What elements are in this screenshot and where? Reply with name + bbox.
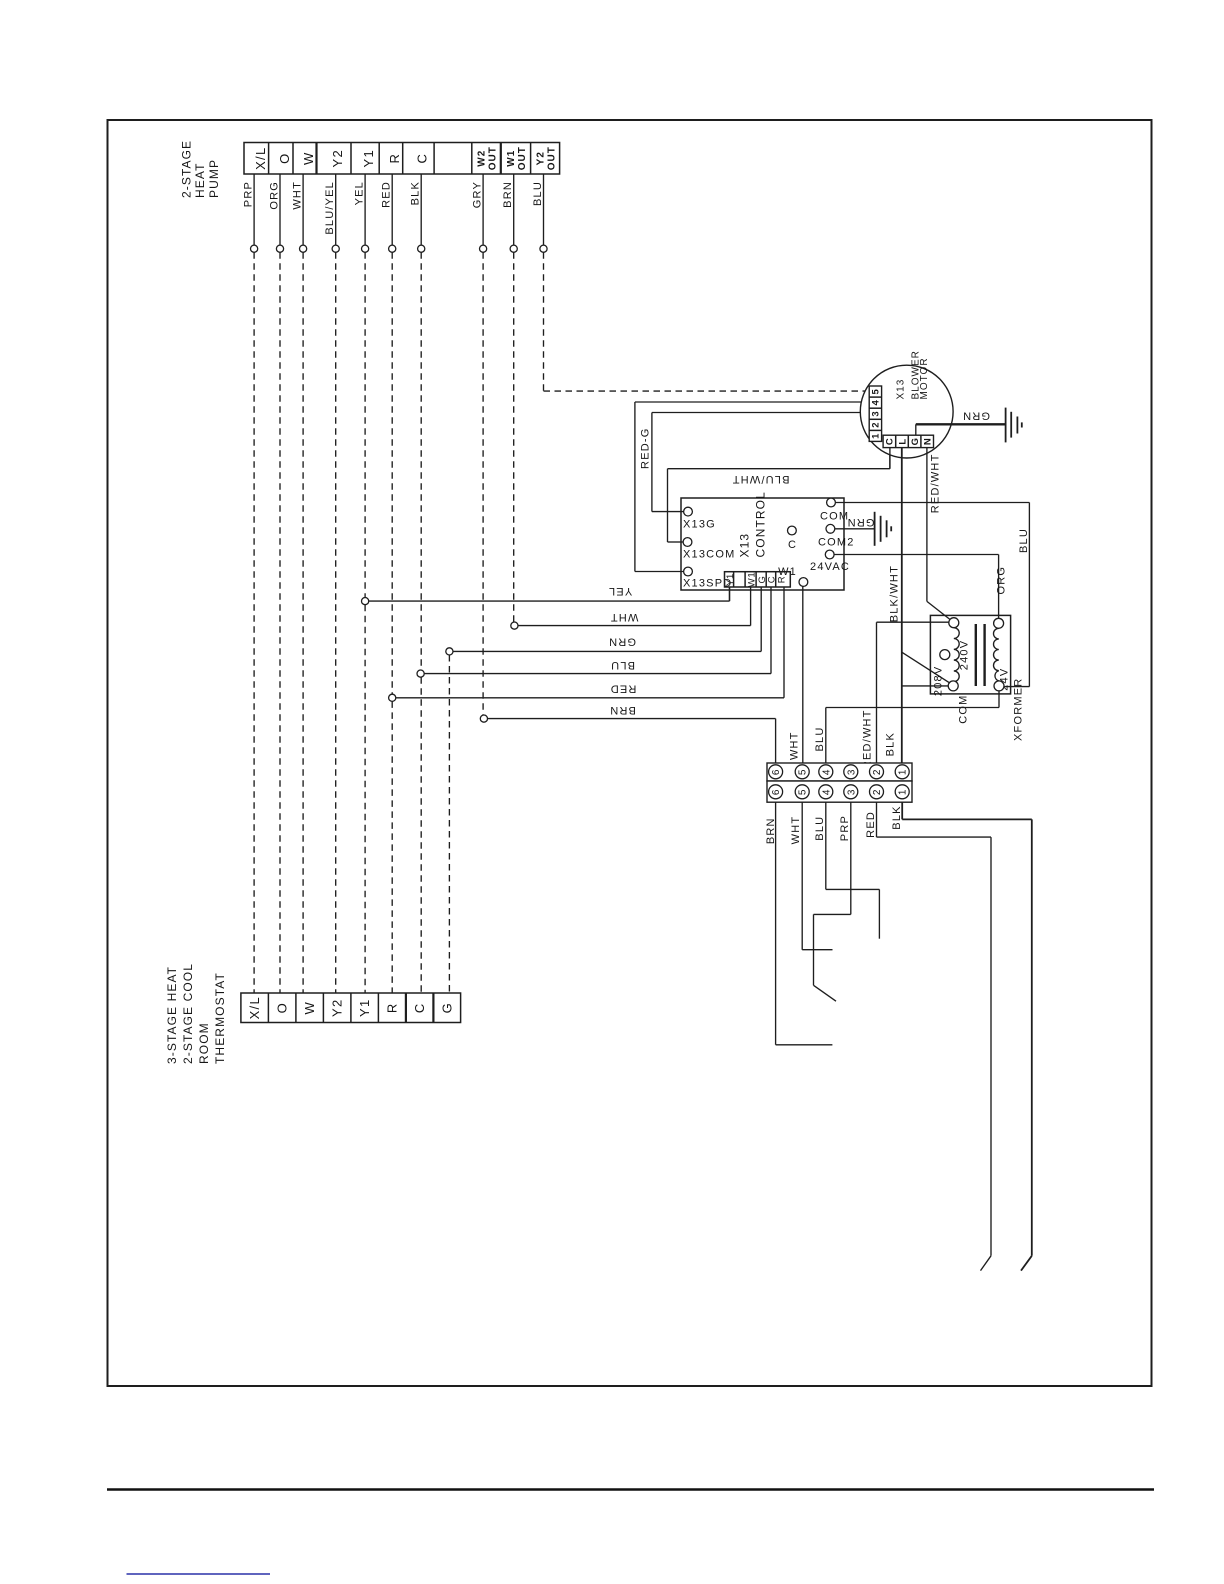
svg-text:COM: COM (958, 695, 970, 724)
wire WHT block5 lower to SEQ1 coil (790, 802, 833, 950)
pin C (788, 526, 797, 535)
svg-text:2-STAGE COOL: 2-STAGE COOL (181, 963, 195, 1064)
svg-text:4: 4 (821, 789, 832, 796)
svg-text:5: 5 (798, 769, 809, 776)
terminal block TB lower row (767, 781, 912, 802)
pin X13SPD (684, 567, 693, 576)
wire RED block2 lower to L2 lug (865, 802, 991, 1270)
svg-text:3: 3 (846, 789, 857, 796)
svg-text:2: 2 (872, 769, 883, 776)
X13 control board U1 (681, 491, 844, 590)
svg-text:OUT: OUT (487, 146, 498, 170)
svg-text:PRP: PRP (839, 815, 851, 841)
svg-text:OUT: OUT (546, 146, 557, 170)
svg-text:BRN: BRN (609, 704, 636, 716)
wire GRN control COM2 to ground (835, 516, 875, 529)
svg-text:3: 3 (846, 769, 857, 776)
svg-text:O: O (274, 1002, 289, 1013)
svg-text:2: 2 (872, 789, 883, 796)
svg-text:Y1: Y1 (357, 998, 372, 1017)
wire GRY column W2 OUT (472, 174, 487, 715)
motor terminal row C L G N (883, 435, 933, 447)
wire PRP column X/L (243, 174, 258, 993)
wire ORG control 24VAC to 24V secondary top (834, 555, 1007, 619)
svg-text:X/L: X/L (253, 146, 268, 169)
wire BLU control COM to 24V secondary (835, 503, 1030, 687)
wire BLU/WHT X13COM to motor C (668, 448, 890, 542)
wire ORG column O (268, 174, 283, 993)
svg-text:W2: W2 (476, 150, 487, 167)
svg-text:XFORMER: XFORMER (1013, 678, 1025, 741)
svg-text:G: G (439, 1002, 454, 1013)
pin 24VAC (825, 550, 834, 559)
svg-text:BLU: BLU (610, 659, 635, 671)
bottom rule (107, 1488, 1154, 1491)
svg-text:C: C (412, 1002, 427, 1013)
svg-text:ROOM: ROOM (197, 1022, 211, 1064)
thermostat terminal strip (241, 993, 461, 1023)
pin 24V top (994, 618, 1004, 628)
svg-text:BRN: BRN (502, 181, 514, 208)
svg-text:ORG: ORG (996, 566, 1008, 595)
wire BLU block4 lower to SEQ1 coil right (814, 802, 879, 939)
svg-text:2: 2 (871, 422, 882, 428)
svg-text:COM2: COM2 (818, 537, 855, 549)
motor speed tap strip 1-5 (869, 386, 882, 441)
svg-text:RED: RED (610, 683, 637, 695)
svg-text:WHT: WHT (790, 816, 802, 845)
wire WHT column W (292, 174, 307, 993)
svg-text:N: N (923, 438, 934, 445)
pin COM2 (826, 524, 835, 533)
svg-text:W: W (302, 1001, 317, 1015)
pin X13COM (683, 538, 692, 547)
svg-text:GRY: GRY (472, 181, 484, 208)
svg-text:Y2: Y2 (535, 151, 546, 165)
svg-text:BLU: BLU (814, 816, 826, 841)
svg-text:MOTOR: MOTOR (919, 357, 930, 399)
svg-text:BLU: BLU (532, 181, 544, 206)
svg-text:O: O (277, 152, 292, 163)
svg-text:240V: 240V (959, 640, 971, 671)
svg-text:Y2: Y2 (330, 149, 345, 168)
blue footer link line (127, 1573, 271, 1575)
svg-text:BLK/WHT: BLK/WHT (889, 565, 901, 622)
svg-text:G: G (910, 437, 921, 445)
svg-text:PUMP: PUMP (207, 159, 221, 198)
wire BLK/WHT motor L down to block 1 (885, 448, 902, 763)
svg-text:C: C (788, 539, 797, 551)
transformer core (975, 624, 977, 686)
wire 24V bottom to block 4 (814, 691, 999, 763)
wire X13G to motor tap 3 (652, 413, 869, 512)
svg-text:W1: W1 (746, 572, 757, 587)
svg-text:3-STAGE HEAT: 3-STAGE HEAT (165, 966, 179, 1064)
wire W1 pin to block 5 (789, 586, 803, 763)
svg-text:X/L: X/L (247, 996, 262, 1019)
svg-text:X13COM: X13COM (683, 549, 735, 561)
pin X13G (684, 507, 693, 516)
wire BLK column C (410, 174, 425, 993)
svg-text:W1: W1 (506, 150, 517, 167)
svg-text:BRN: BRN (765, 817, 777, 844)
wire BLU C-to-control (417, 587, 771, 677)
wire BLK block1 lower to L1 lug (891, 802, 1032, 1270)
secondary winding (994, 628, 999, 681)
X13 blower motor M1 (860, 350, 953, 458)
svg-text:GRN: GRN (846, 516, 874, 528)
pin COM (827, 498, 836, 507)
wire YEL-stub control Y1 terminal (729, 587, 731, 601)
svg-text:WHT: WHT (789, 731, 801, 760)
svg-text:HEAT: HEAT (193, 162, 207, 198)
transformer T1 XFORMER (930, 615, 1024, 741)
wire RED/WHT block 2 to XFMR 240V (862, 622, 949, 769)
svg-text:GRN: GRN (962, 409, 990, 421)
wire BRN block6 lower to SEQ2 coil (765, 802, 832, 1045)
svg-text:RED-G: RED-G (640, 428, 652, 469)
svg-text:RED/WHT: RED/WHT (862, 709, 874, 769)
wire WHT W1OUT-to-control (511, 587, 751, 629)
svg-text:YEL: YEL (354, 181, 366, 205)
svg-text:BLU/WHT: BLU/WHT (732, 473, 790, 485)
svg-text:4: 4 (821, 769, 832, 776)
svg-text:RED/WHT: RED/WHT (930, 454, 942, 514)
wire RED column R (381, 174, 396, 993)
svg-text:4: 4 (871, 400, 882, 406)
ground symbol at COM2 (875, 512, 892, 546)
svg-text:BLK: BLK (891, 805, 903, 829)
TB upper terminals 6..1 (769, 765, 910, 779)
svg-text:W: W (301, 151, 316, 165)
wire motor C stub to BLU/WHT (889, 448, 891, 469)
wire BLK branch to XFMR COM (902, 685, 948, 687)
svg-text:WHT: WHT (610, 611, 639, 623)
svg-text:R: R (387, 153, 402, 164)
terminal block TB upper row (767, 763, 912, 781)
pin 240V (949, 618, 959, 628)
svg-text:24VAC: 24VAC (810, 561, 850, 573)
pin 208V tap (940, 650, 950, 660)
wire column G (thermostat only) (448, 655, 450, 993)
TB lower terminals 6..1 (769, 785, 910, 799)
svg-text:1: 1 (898, 789, 909, 796)
wire YEL column Y1 (354, 174, 369, 993)
control bottom terminal row Y1/W1/G/C/R (725, 572, 791, 588)
svg-text:2-STAGE: 2-STAGE (180, 140, 194, 198)
svg-text:6: 6 (771, 769, 782, 776)
svg-text:WHT: WHT (292, 181, 304, 210)
svg-text:X13: X13 (896, 379, 907, 400)
svg-text:THERMOSTAT: THERMOSTAT (213, 972, 227, 1064)
svg-text:Y1: Y1 (725, 573, 736, 586)
svg-text:6: 6 (771, 789, 782, 796)
svg-text:BLK: BLK (885, 732, 897, 756)
svg-text:RED: RED (865, 811, 877, 838)
svg-text:BLU: BLU (1018, 528, 1030, 553)
pin 24V bottom (994, 681, 1004, 691)
svg-text:208V: 208V (933, 666, 945, 697)
svg-text:C: C (885, 438, 896, 445)
wire GRN motor G to ground (916, 409, 1006, 435)
wire GRN G-to-control (446, 587, 761, 655)
svg-text:R: R (384, 1002, 399, 1013)
svg-text:OUT: OUT (517, 146, 528, 170)
pin COM (948, 681, 958, 691)
wire BLK/WHT diagonal branch to XFMR COM (902, 652, 949, 682)
svg-text:R: R (776, 576, 787, 583)
svg-text:ORG: ORG (268, 181, 280, 210)
svg-text:L: L (897, 438, 908, 444)
svg-text:5: 5 (798, 789, 809, 796)
wire RED/WHT motor N to XFMR 240V (927, 448, 950, 620)
svg-text:YEL: YEL (608, 585, 632, 597)
border frame (108, 120, 1152, 1386)
svg-text:RED: RED (381, 181, 393, 208)
svg-text:GRN: GRN (608, 635, 636, 647)
svg-text:3: 3 (871, 411, 882, 417)
svg-text:X13G: X13G (683, 519, 716, 531)
wire BLU/YEL column Y2 (324, 174, 339, 993)
ground symbol at motor (1006, 408, 1022, 443)
wire RED R-to-control (389, 587, 784, 701)
svg-text:CONTROL: CONTROL (754, 491, 768, 557)
svg-text:BLK: BLK (410, 181, 422, 205)
pin W1 (799, 578, 808, 587)
svg-text:BLU: BLU (814, 727, 826, 752)
svg-text:C: C (414, 153, 429, 164)
wire BRN W2OUT-to-block6 (480, 704, 775, 763)
svg-text:X13: X13 (738, 533, 752, 558)
svg-text:1: 1 (871, 433, 882, 439)
svg-text:5: 5 (871, 388, 882, 394)
svg-text:Y1: Y1 (361, 149, 376, 168)
svg-text:PRP: PRP (243, 181, 255, 207)
wire PRP block3 lower to SEQ1 sw1 (814, 802, 852, 1001)
2-stage heat pump terminal strip (244, 143, 560, 175)
wire BLU column Y2 OUT to motor tap 5 (532, 174, 866, 391)
wire BRN column W1 OUT (502, 174, 517, 622)
svg-text:1: 1 (898, 769, 909, 776)
svg-text:Y2: Y2 (329, 998, 344, 1017)
wire RED-G X13SPD to motor tap 4 (635, 402, 869, 572)
primary winding (954, 628, 959, 691)
wire YEL Y1-to-control (362, 585, 730, 605)
svg-text:COM: COM (820, 511, 849, 523)
svg-text:BLU/YEL: BLU/YEL (324, 181, 336, 235)
